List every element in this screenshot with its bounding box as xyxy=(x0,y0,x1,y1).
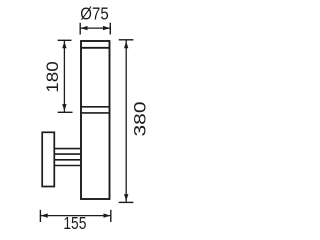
dimension Ø75 line xyxy=(80,27,110,29)
dimension 380 bottom arrowhead xyxy=(124,194,128,201)
dimension 180 bottom extension tick xyxy=(58,111,73,113)
dimension 155 left arrowhead xyxy=(41,213,48,217)
dimension 155 line xyxy=(40,215,110,217)
svg-text:Ø75: Ø75 xyxy=(80,4,108,23)
bracket arm line 4 xyxy=(54,165,81,167)
dimension 180 top arrowhead xyxy=(62,42,66,49)
lower joint line xyxy=(80,112,110,114)
dimension Ø75 right arrowhead xyxy=(103,26,110,30)
dimension 380 line xyxy=(125,40,127,202)
bracket arm line 1 xyxy=(54,148,81,150)
wall mount plate xyxy=(42,132,54,186)
svg-text:155: 155 xyxy=(63,215,86,234)
dimension 380 top arrowhead xyxy=(124,41,128,48)
dimension 155 right arrowhead xyxy=(104,213,111,217)
dimension 380 top extension tick xyxy=(119,39,134,41)
upper joint line xyxy=(80,106,110,108)
dimension 380 bottom extension tick xyxy=(119,201,134,203)
dimension 155 left extension tick xyxy=(39,210,41,222)
dimension 180 bottom arrowhead xyxy=(62,104,66,111)
dimension Ø75 left arrowhead xyxy=(81,26,88,30)
bracket arm line 3 xyxy=(54,159,81,161)
top cap line xyxy=(81,47,110,49)
dimension Ø75 left extension tick xyxy=(79,23,81,35)
bracket arm line 2 xyxy=(54,153,81,155)
dimension 180 line xyxy=(63,41,65,113)
dimension 180 top extension tick xyxy=(58,39,72,41)
dimension Ø75 right extension tick xyxy=(109,23,111,35)
dimension 155 right extension tick xyxy=(110,210,112,222)
svg-text:180: 180 xyxy=(43,61,62,92)
svg-text:380: 380 xyxy=(131,102,150,137)
lamp cylinder body outline xyxy=(81,41,110,199)
